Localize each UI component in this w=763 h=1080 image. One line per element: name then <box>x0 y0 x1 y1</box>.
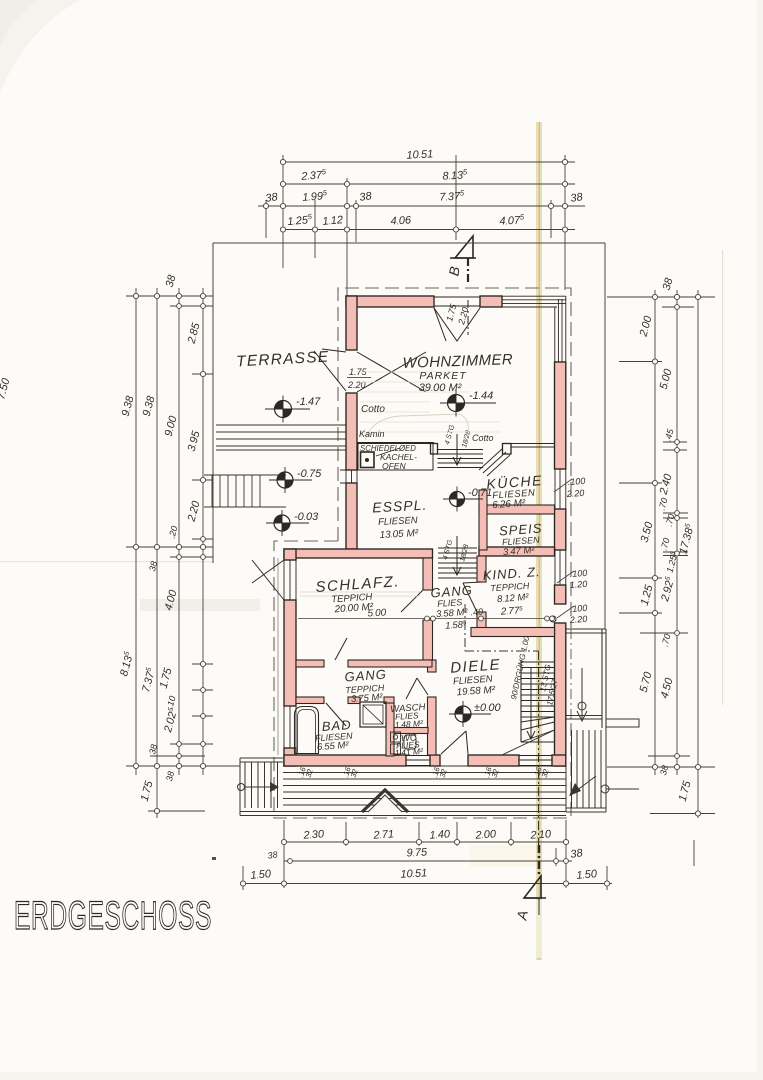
svg-text:.100: .100 <box>569 603 587 614</box>
wc north wall <box>394 728 428 734</box>
porch door dims right <box>568 603 587 625</box>
fold glow band near bottom rows <box>470 845 536 867</box>
svg-text:6.26 M²: 6.26 M² <box>492 498 526 511</box>
right dim labels rotated <box>637 276 697 803</box>
left chain line x136 <box>135 288 137 775</box>
bottom extension x566 <box>565 820 567 888</box>
svg-text:10.51: 10.51 <box>400 867 427 880</box>
entrance door opening + leaf <box>441 731 468 754</box>
fold crease lower fade <box>536 900 542 958</box>
section jog horizontal y651 <box>465 650 539 652</box>
left chain line x179 <box>178 288 180 775</box>
section line x465 vertical <box>464 604 466 651</box>
left wall window dims 1.75/2.20 <box>347 367 368 390</box>
kueche window dims <box>565 476 585 499</box>
svg-text:1.50: 1.50 <box>250 868 272 882</box>
kitchen counter edge <box>511 444 555 448</box>
bottom row3 y883 <box>240 883 612 885</box>
dim row 38/1.99/38/7.37/38 <box>258 205 585 207</box>
right wall pink mid <box>555 509 566 550</box>
svg-text:ERDGESCHOSS: ERDGESCHOSS <box>14 894 212 939</box>
right corner window band <box>555 296 566 362</box>
row y557 tick38 <box>170 556 213 558</box>
row y547 <box>126 546 213 548</box>
paper corner shading top-left <box>0 0 80 92</box>
bottom extension x556 <box>555 848 557 866</box>
top wall segment mid <box>480 296 502 307</box>
level mark -0.03 <box>266 510 319 536</box>
post square kitchen <box>503 444 512 455</box>
level mark -1.47 <box>265 396 321 423</box>
kind west wall lower <box>477 612 486 628</box>
terrace upper steps band <box>216 425 352 450</box>
svg-text:1.48 M²: 1.48 M² <box>394 718 424 730</box>
stair winder fan <box>502 717 555 755</box>
svg-text:1.41 M²: 1.41 M² <box>394 746 424 758</box>
stray mark above title <box>212 857 216 860</box>
row y744 <box>170 743 213 745</box>
kitchen window right <box>555 469 566 509</box>
svg-text:-0.71: -0.71 <box>468 487 492 499</box>
overhang dashed left lower <box>274 541 571 818</box>
bottom wall pink corner <box>552 755 566 766</box>
terrace garden stair treads <box>212 475 260 507</box>
svg-text:2.20: 2.20 <box>565 488 584 499</box>
bottom extension x346 <box>345 822 347 846</box>
schlafz east wall lower <box>423 620 433 660</box>
bad bathtub <box>295 707 319 754</box>
faint horizontal crease left <box>0 561 213 562</box>
extension line x315 <box>314 200 316 258</box>
post square west of upper steps <box>431 444 438 455</box>
svg-text:Cotto: Cotto <box>472 433 494 443</box>
kitchen diagonal bar <box>479 449 510 476</box>
kachelofen hearth square <box>361 452 375 468</box>
bottom row1 y842 <box>284 841 566 843</box>
schlafz door leaf from gang <box>401 590 423 612</box>
row y767 <box>607 766 715 768</box>
svg-text:2.10: 2.10 <box>529 828 552 842</box>
tick circles top rows <box>263 159 567 232</box>
level mark -0.75 <box>269 467 322 493</box>
tick bars y513/y518 <box>663 512 688 514</box>
right chain line x677 <box>676 290 678 775</box>
esspl window left <box>340 470 357 483</box>
fold crease core line <box>539 122 540 960</box>
svg-text:Cotto: Cotto <box>361 404 385 415</box>
svg-text:-0.75: -0.75 <box>297 468 322 480</box>
bedroom west window <box>284 560 296 600</box>
entrance steps center arrow <box>362 790 408 812</box>
svg-text:1.40: 1.40 <box>429 828 451 841</box>
svg-text:±0.00: ±0.00 <box>474 702 502 714</box>
svg-text:OFEN: OFEN <box>382 461 406 471</box>
bad door leaf <box>326 703 346 726</box>
svg-text:5.00: 5.00 <box>367 608 387 620</box>
svg-text:3.58 M²: 3.58 M² <box>436 607 469 620</box>
kind window right <box>555 550 566 585</box>
svg-text:2.20: 2.20 <box>568 614 587 625</box>
level mark -0.71 <box>443 487 492 512</box>
level mark 0.00 <box>449 701 502 727</box>
gang steps to esspl <box>438 548 477 578</box>
svg-text:PARKET: PARKET <box>419 370 467 382</box>
smudge left of bedroom <box>140 599 260 611</box>
svg-text:ESSPL.: ESSPL. <box>372 497 428 516</box>
svg-text:.100: .100 <box>567 476 585 487</box>
row y578 <box>619 577 662 579</box>
dim row 10.51 <box>283 161 575 163</box>
kind west wall <box>477 556 486 582</box>
svg-text:6.55 M²: 6.55 M² <box>317 740 350 753</box>
faint paper fold right <box>722 250 723 705</box>
bedroom west wall pink <box>284 600 296 706</box>
right wall pink porch side <box>555 623 566 766</box>
diele/kind wall <box>471 628 555 637</box>
tick bars y442/y450 <box>663 441 687 443</box>
svg-text:2.00: 2.00 <box>474 828 497 842</box>
right chain line x655 <box>654 290 656 775</box>
pencil sofa outline <box>365 414 468 440</box>
left flight arrow <box>238 782 280 792</box>
terrace lower landing edge2 <box>204 506 286 508</box>
svg-text:-0.03: -0.03 <box>294 511 319 523</box>
svg-text:-1.47: -1.47 <box>296 396 321 408</box>
terrace door X symbol <box>357 352 426 392</box>
svg-text:2.20: 2.20 <box>347 380 366 390</box>
terrace door jambs <box>346 350 357 393</box>
tick y480 <box>192 479 213 481</box>
wc bowl <box>404 735 416 749</box>
bottom extension x419 <box>418 822 420 846</box>
schlafz pencil lines <box>300 592 420 596</box>
row y483 <box>619 482 662 484</box>
gang-diele door leaf <box>406 678 428 699</box>
extension line x266 <box>265 200 267 238</box>
row y813 <box>650 813 715 815</box>
right wall pink small <box>555 585 566 604</box>
svg-text:38: 38 <box>267 849 278 860</box>
finish line left of bedroom wall <box>277 558 279 755</box>
tick y716 <box>192 715 213 717</box>
bad north wall mid <box>348 697 360 704</box>
terrace door swing outside <box>314 349 346 391</box>
svg-text:3.47 M²: 3.47 M² <box>503 545 536 558</box>
porch railing line to right <box>606 788 639 790</box>
tick y374 <box>192 373 213 375</box>
left chain line x157 <box>156 288 158 818</box>
entrance steps band <box>240 766 566 816</box>
svg-text:.100: .100 <box>569 568 587 579</box>
row y297 <box>607 296 715 298</box>
tick bars y552/y555 <box>663 551 688 553</box>
bad north wall west <box>296 697 324 704</box>
section marker B top <box>450 236 476 335</box>
left wall pink mid <box>346 393 357 470</box>
bottom wall pink west <box>284 755 406 766</box>
svg-text:1.12: 1.12 <box>322 214 344 228</box>
stair west stringer <box>520 660 522 742</box>
row y756 <box>150 755 205 757</box>
diele window bottom <box>519 756 552 766</box>
esspl/speis wall vertical <box>479 490 487 550</box>
jog wall bedroom top <box>284 549 433 558</box>
wasch/wc wall vertical <box>386 703 394 756</box>
bad window west <box>284 706 296 748</box>
extension line x456 <box>455 155 457 240</box>
extension line x565 <box>564 155 566 290</box>
right wall pink upper <box>555 362 566 469</box>
kachelofen box <box>358 444 433 471</box>
kind window dims right <box>569 568 587 590</box>
living/kitchen level edge line <box>357 442 434 444</box>
outer plot border top <box>213 242 605 244</box>
outer plot border left <box>212 243 214 563</box>
row y296 <box>126 295 213 297</box>
svg-text:8.12 M²: 8.12 M² <box>497 592 530 605</box>
interior stair treads <box>521 662 555 717</box>
schlafz south wall east <box>348 660 432 667</box>
tick row y307 <box>662 306 694 308</box>
tick y539 <box>192 538 213 540</box>
porch post circle <box>578 702 586 710</box>
pencil parquet lines living room <box>360 372 500 432</box>
svg-text:13.05 M²: 13.05 M² <box>379 528 419 541</box>
tick y633 <box>640 632 688 634</box>
left chain line x203 <box>202 288 204 775</box>
left wall pink top <box>346 296 357 350</box>
left dim labels rotated <box>118 273 203 803</box>
schlafz width dim line <box>298 618 548 620</box>
row y811 <box>148 810 205 812</box>
terrace lower landing edge <box>204 474 286 476</box>
outer plot border right <box>604 243 606 629</box>
bottom tick circles <box>240 839 609 886</box>
extension line x283 <box>282 155 284 268</box>
svg-text:3.75 M²: 3.75 M² <box>351 692 384 705</box>
bottom extension x694 small <box>693 840 695 866</box>
stair arrow <box>527 668 535 739</box>
fold crease vertical (yellowish) <box>536 122 542 960</box>
step riser labels rotated <box>296 765 551 780</box>
overhang dash-dot through porch <box>570 629 572 724</box>
right tick circles <box>652 294 700 816</box>
svg-text:-1.44: -1.44 <box>469 390 493 402</box>
bottom extension x284 <box>283 820 285 888</box>
row y361 <box>619 361 662 363</box>
bottom wall pink mid <box>468 755 519 766</box>
left wall pink lower <box>346 483 357 549</box>
svg-text:DIELE: DIELE <box>450 656 502 677</box>
extension line x551 <box>550 200 552 238</box>
roof overhang dashed outline <box>338 288 571 628</box>
tick y690 <box>192 689 213 691</box>
extension line x356 <box>355 200 357 242</box>
wc window bottom <box>406 756 430 766</box>
wasch door gap + wall <box>384 697 394 704</box>
dim row 1.25/1.12/4.06/4.07 <box>283 229 575 231</box>
bottom extension x607 <box>606 866 608 890</box>
svg-text:GANG: GANG <box>344 667 387 685</box>
section marker A bottom <box>524 845 546 915</box>
porch door pivot circle <box>550 616 556 622</box>
kitchen/speis wall <box>479 505 555 514</box>
svg-text:10.51: 10.51 <box>406 148 433 161</box>
row y766 <box>126 765 240 767</box>
svg-text:9.75: 9.75 <box>406 846 428 859</box>
left tick circles <box>133 293 205 813</box>
drawing title ERDGESCHOSS <box>14 894 212 939</box>
bottom extension x457 <box>456 822 458 846</box>
porch railing extension bar <box>606 719 639 727</box>
row y613 <box>619 612 662 614</box>
bedroom west wall pink top <box>284 549 296 560</box>
right flight arrow <box>569 776 596 796</box>
svg-text:FLIESEN: FLIESEN <box>378 515 418 528</box>
schlafz door leaf up <box>335 638 347 660</box>
svg-text:2.71: 2.71 <box>372 828 394 841</box>
speis kind separating wall <box>479 547 555 556</box>
porch outline <box>566 629 606 728</box>
bottom extension x243 <box>242 866 244 890</box>
porch down arrow <box>577 668 587 721</box>
gang steps arrow <box>453 536 461 575</box>
row y756 <box>648 755 690 757</box>
svg-text:2.30: 2.30 <box>302 828 325 842</box>
svg-text:.40: .40 <box>470 607 483 618</box>
gang east wall upper <box>428 660 437 672</box>
row y306 tick38 <box>170 305 213 307</box>
bottom extension x511 <box>510 822 512 846</box>
top corner window band <box>502 296 566 307</box>
top wall window V symbol <box>434 308 480 341</box>
kind door leaf <box>463 582 482 612</box>
bedroom window mark outside <box>252 560 284 600</box>
section line dash-dot to bottom <box>538 651 540 845</box>
wc cistern boxes <box>391 732 401 742</box>
paper edge shading bottom <box>0 1072 763 1080</box>
wasch shower square <box>360 702 386 727</box>
right side flight <box>566 728 606 812</box>
schlafz south wall west <box>296 660 324 667</box>
upper split-level steps <box>438 450 484 468</box>
extension line x347 <box>346 178 348 296</box>
dim row 2.37/8.13 <box>283 183 575 185</box>
diele west wall <box>428 697 437 755</box>
bottom wall pink stub <box>430 755 440 766</box>
kachelofen pointer line <box>376 448 400 456</box>
top wall segment west <box>346 296 434 307</box>
top dim labels <box>265 148 585 228</box>
svg-text:1.50: 1.50 <box>576 868 598 882</box>
bottom row2 y861 <box>284 860 572 862</box>
top wall window opening lines <box>434 297 480 306</box>
right chain line x698 <box>697 290 699 818</box>
upper steps arrow <box>453 434 461 465</box>
paper edge shading right <box>757 0 763 1080</box>
bedroom west wall pink bottom <box>284 748 296 766</box>
level mark -1.44 <box>440 390 496 417</box>
svg-text:1.20: 1.20 <box>569 579 587 590</box>
svg-text:4.06: 4.06 <box>390 214 412 227</box>
svg-text:39.00 M²: 39.00 M² <box>419 382 462 394</box>
left return flight <box>240 758 283 816</box>
schlafz east wall <box>423 558 433 590</box>
tick y664 <box>192 663 213 665</box>
bottom dim labels <box>250 828 598 882</box>
svg-text:Kamin: Kamin <box>359 429 385 439</box>
